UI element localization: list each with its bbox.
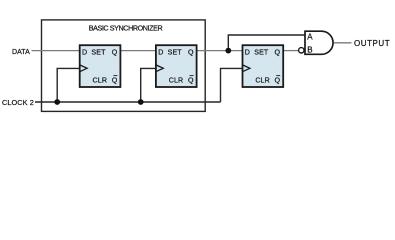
svg-text:BASIC SYNCHRONIZER: BASIC SYNCHRONIZER [89, 23, 163, 32]
svg-text:Q: Q [112, 77, 118, 85]
svg-text:SET: SET [254, 48, 269, 56]
svg-text:OUTPUT: OUTPUT [354, 39, 390, 48]
svg-text:D: D [82, 48, 87, 56]
svg-text:D: D [158, 48, 163, 56]
svg-text:CLOCK 2: CLOCK 2 [2, 98, 34, 107]
svg-text:Q: Q [112, 48, 118, 56]
svg-text:Q: Q [275, 77, 281, 85]
svg-text:SET: SET [91, 48, 106, 56]
svg-text:CLR: CLR [255, 77, 270, 85]
svg-text:Q: Q [188, 48, 194, 56]
svg-text:B: B [307, 45, 312, 54]
svg-text:CLR: CLR [169, 77, 184, 85]
svg-text:Q: Q [188, 77, 194, 85]
svg-text:A: A [307, 32, 313, 41]
svg-text:CLR: CLR [93, 77, 108, 85]
svg-text:SET: SET [168, 48, 183, 56]
svg-text:DATA: DATA [12, 49, 30, 56]
svg-text:D: D [245, 48, 250, 56]
svg-text:Q: Q [275, 48, 281, 56]
